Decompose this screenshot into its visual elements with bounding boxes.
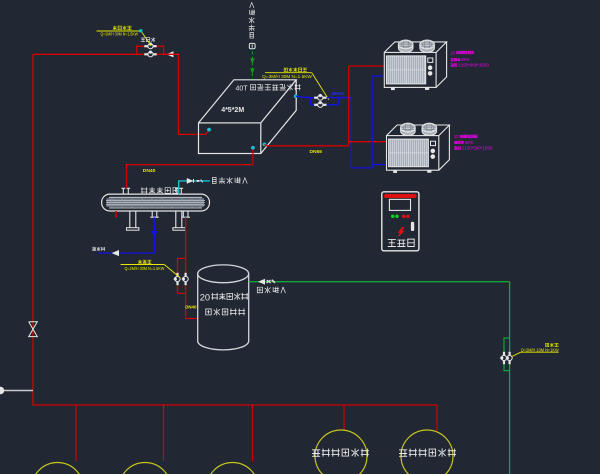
svg-text:60KW: 60KW [465, 140, 474, 145]
pump group P1/P2 bypass loop (red) [137, 46, 164, 54]
wire - heating supply header (red) [33, 53, 137, 55]
wire - down to sewage tank (red) [186, 293, 198, 318]
label - 20吨圆形水箱 [200, 292, 248, 302]
wire - blue to HP2 [372, 164, 386, 166]
tank - 20T circular sewage tank [198, 265, 249, 350]
label - pump callout (yellow) mid [121, 260, 181, 278]
fitting - HE bottom-red flange [181, 211, 190, 217]
wire - red to HP2 [349, 141, 387, 143]
equipment - heat pump HP2 [387, 123, 450, 173]
wire - HE drain (blue) [98, 217, 155, 253]
label - 泄水口 [92, 247, 104, 251]
svg-text:DN40: DN40 [185, 304, 197, 309]
pump P1 [144, 43, 156, 49]
fitting - check valve on tap line [187, 179, 202, 183]
label - DN65 [310, 149, 323, 155]
label - pump callout (yellow) right [512, 343, 560, 356]
wire - sewage inlet line (green) [249, 281, 510, 283]
equipment - heat pump HP1 [384, 40, 446, 90]
pump P7 [501, 352, 507, 364]
pump P4 [314, 101, 326, 107]
wire - tank hot outlet header (red) [265, 144, 349, 145]
node - tank nozzle 2 [251, 146, 254, 149]
arrow - sewage flow [259, 280, 264, 284]
wire - blue riser to heat pumps [339, 98, 372, 168]
pump group P5/P6 bypass loop (red) [178, 258, 186, 293]
svg-text:60KW: 60KW [461, 57, 470, 62]
wire - tank outlet to pumps (blue) [296, 96, 311, 97]
label - 污水进入 [257, 287, 285, 293]
tank - existing hot water tank arc 2 [119, 463, 171, 474]
label - 污水收集箱 [206, 309, 245, 316]
label - 自来水进入 (vertical) [249, 2, 255, 38]
wire - branch to tank 3 [252, 405, 254, 461]
fitting - HE bottom-blue flange [150, 211, 159, 217]
pump P5 [174, 273, 180, 285]
pump P3 [314, 94, 326, 100]
pump P8 [506, 352, 512, 364]
label - 4*5*2M [221, 107, 244, 114]
svg-text:DN65: DN65 [310, 149, 323, 155]
wire - tap water drop line (green dashed) [251, 51, 254, 79]
svg-text:20: 20 [200, 292, 210, 302]
pump P6 [182, 273, 188, 285]
pipe - HE left drain stub (red) [115, 211, 117, 218]
tank - existing hot water tank 4 (原有储热水箱) [312, 430, 368, 474]
meter - water meter symbol [249, 43, 255, 48]
pump P2 [144, 51, 156, 57]
arrow - drain left [113, 251, 119, 256]
fitting - HE top-right flange [175, 188, 183, 194]
wire - blue drop HP1-HP2 [371, 76, 373, 168]
equipment - heat exchanger right leg [173, 211, 186, 230]
svg-text:2150*960*1650: 2150*960*1650 [458, 63, 489, 68]
svg-text:Q=3M/H 30M N=1.5KW: Q=3M/H 30M N=1.5KW [262, 74, 313, 79]
wire - tank to HE (red) [127, 150, 253, 189]
label - DN40 b [185, 304, 197, 309]
tank - existing hot water tank arc 1 [32, 463, 84, 474]
svg-text:DN40: DN40 [143, 168, 156, 174]
pump group P7/P8 loop (green) [504, 338, 510, 371]
node - tank nozzle 1 [208, 128, 211, 131]
tank - 40T insulated water tank box [199, 80, 297, 154]
svg-text:40T: 40T [236, 86, 249, 93]
fitting - valve on sewage line [267, 280, 275, 283]
label - pump callout (yellow) tank right [262, 68, 329, 100]
svg-text:DN50: DN50 [332, 91, 345, 97]
tank - existing hot water tank 5 (原有储热水箱) [399, 430, 455, 474]
arrow - drain down [152, 232, 157, 238]
label - 供暖水 (white) [141, 38, 155, 42]
wire - sewage riser (green) [509, 282, 511, 474]
node - tank nozzle 3 [263, 143, 266, 146]
wire - branch to tank 1 [75, 405, 77, 461]
svg-text:Q=2M/H 30M N=1.5KW: Q=2M/H 30M N=1.5KW [125, 266, 166, 271]
label - pump callout (yellow) top-left [97, 26, 152, 46]
svg-text:Q=2M/H 10M N=1KW: Q=2M/H 10M N=1KW [521, 348, 560, 353]
svg-text:2150*960*1650: 2150*960*1650 [462, 146, 493, 151]
svg-text:20: 20 [451, 50, 456, 55]
equipment - shell and tube heat exchanger body [102, 194, 210, 211]
label - 壳管换热器 [141, 187, 178, 193]
fitting - HE top-left flange [122, 188, 131, 194]
label - DN40 a [143, 168, 156, 174]
wire - branch to tank 4 [343, 405, 345, 431]
check arrow on heating line [168, 52, 174, 57]
wire - blue to HP1 [372, 75, 384, 77]
label - 自来水进入 (HE) [213, 177, 248, 183]
svg-text:20: 20 [454, 134, 459, 139]
node - tank nozzle 4 [294, 95, 297, 98]
wire - tap water line (cyan) [179, 181, 210, 194]
label - DN50 [332, 91, 345, 97]
wire - left supply main and bottom header (red) [33, 54, 437, 405]
valve V1 on left main (hourglass) [29, 322, 38, 337]
equipment - control cabinet (控制柜) [382, 192, 419, 251]
wire - HE outlet down (red) [185, 217, 187, 258]
tank - existing hot water tank arc 3 [207, 463, 259, 474]
equipment - heat exchanger left leg [127, 211, 139, 230]
pipe - drain stub at left edge (gray) [0, 387, 33, 393]
label - HP2 spec (magenta) [454, 134, 493, 151]
wire - branch to tank 5 [436, 405, 438, 431]
svg-text:Q=2M/H 30M N=1.5KW: Q=2M/H 30M N=1.5KW [101, 32, 139, 37]
label - 40T不锈钢保温水箱 [236, 84, 301, 92]
wire - branch to tank 2 [163, 405, 165, 461]
svg-text:4*5*2M: 4*5*2M [221, 107, 244, 114]
wire - heating line to tank nozzle (red) [164, 54, 209, 134]
label - HP1 spec (magenta) [451, 50, 490, 67]
wire - red to HP1 [349, 65, 385, 67]
wire - red riser [348, 66, 350, 146]
pump group P3/P4 bypass loop (blue) [310, 98, 338, 105]
